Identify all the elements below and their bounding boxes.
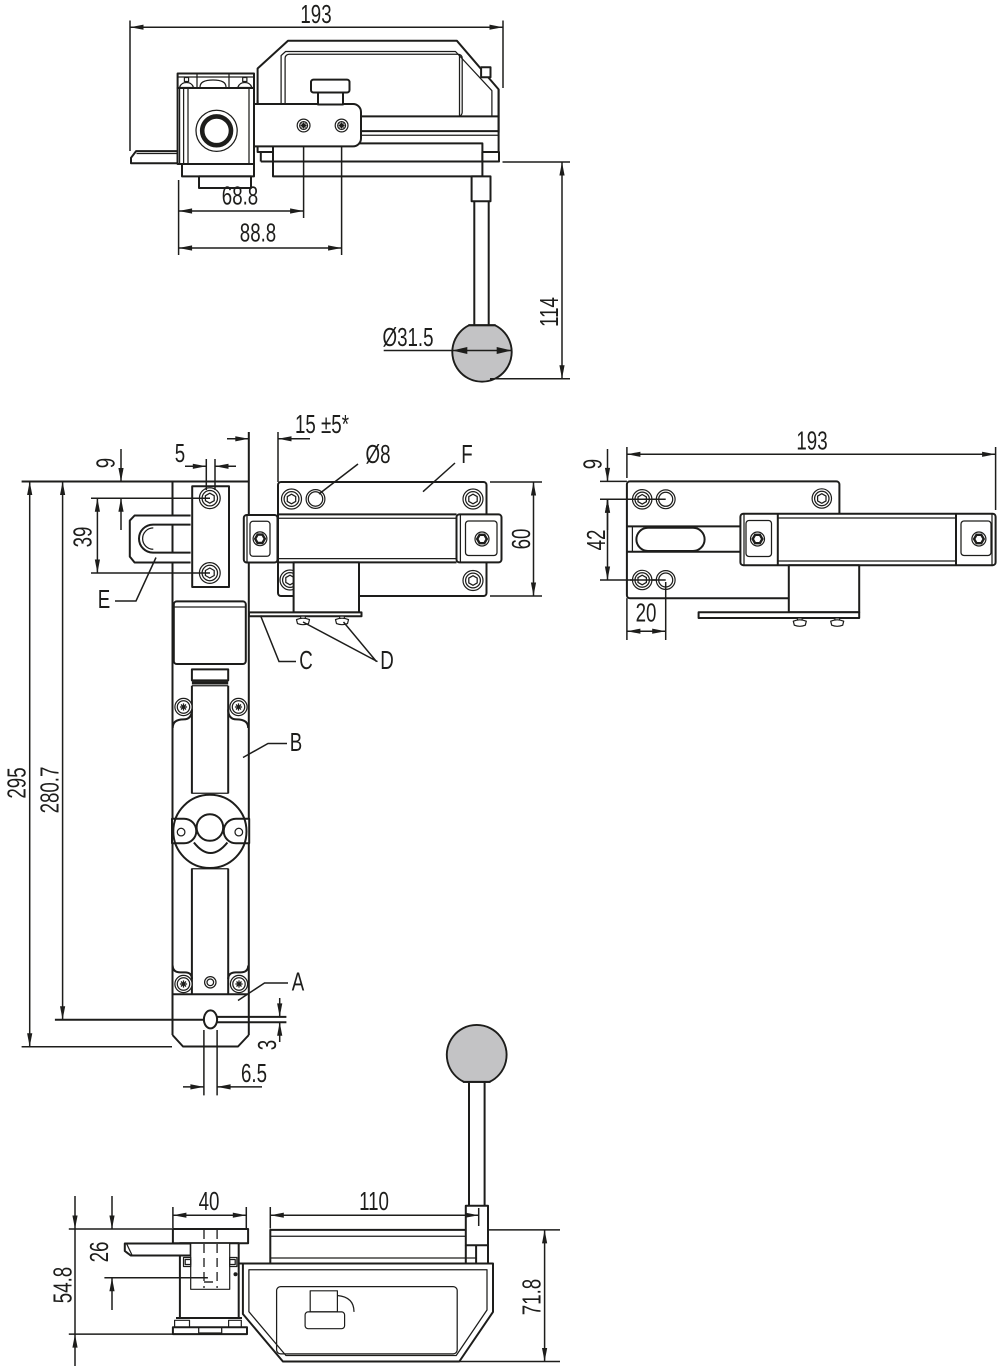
dim 6.5 (204, 1030, 217, 1095)
svg-text:39: 39 (67, 527, 97, 548)
block side screw left (184, 1258, 191, 1267)
dim 68.8 (179, 210, 304, 212)
left step piece (258, 100, 273, 161)
dim 3 (279, 998, 281, 1017)
svg-text:193: 193 (300, 0, 331, 29)
dim 9 (607, 449, 609, 481)
lever shaft hole bold ring (202, 116, 231, 145)
svg-text:Ø8: Ø8 (366, 439, 391, 469)
keeper E slot (139, 525, 191, 553)
shaft housing (191, 1243, 230, 1289)
svg-text:60: 60 (506, 529, 536, 550)
block screw right (243, 78, 247, 82)
screw center line bottom (600, 579, 666, 581)
flange plate (699, 612, 860, 618)
knob stem (318, 93, 343, 105)
arm screw 2 (335, 119, 348, 132)
mechanism box (285, 54, 462, 116)
svg-text:9: 9 (577, 459, 607, 469)
dim 193 right ext (995, 447, 997, 510)
bracket screw feet (798, 618, 803, 621)
cam disc (173, 795, 246, 868)
block top cap (173, 1229, 248, 1243)
svg-text:26: 26 (84, 1242, 114, 1263)
keeper E (130, 516, 191, 563)
dim 40 (173, 1214, 246, 1216)
F screw TL (282, 489, 302, 509)
hole TL2 (656, 490, 675, 509)
rail bottom edge (174, 993, 248, 995)
body left edge (172, 482, 174, 1036)
dim 15pm5 ext (248, 432, 250, 482)
body outer contour (258, 41, 499, 133)
band bottom line (361, 130, 499, 132)
dim 193 line (130, 26, 503, 28)
lever ball (447, 1025, 507, 1082)
block inner wall lines (179, 88, 181, 164)
dim 20 exts (626, 598, 628, 640)
lever shaft narrow (474, 201, 488, 325)
dim 54.8 (74, 1196, 76, 1366)
F screw TR (463, 489, 483, 509)
tube section (174, 601, 246, 664)
hole A lines right (217, 1017, 286, 1022)
dim 39 (91, 572, 210, 574)
band thin line (361, 134, 499, 136)
hidden shaft dashed (204, 1230, 217, 1288)
flat bar inner line (137, 153, 178, 155)
bracket (294, 562, 359, 612)
small pin dot (234, 1272, 238, 1276)
cam smile (194, 843, 228, 854)
plate C (249, 612, 362, 616)
svg-text:A: A (292, 966, 305, 996)
shaft top arc (200, 80, 226, 87)
rail screw TL (175, 698, 192, 715)
dim 114 line (561, 162, 563, 379)
bar inner lines (778, 518, 956, 561)
svg-text:6.5: 6.5 (241, 1058, 267, 1088)
slider cap (192, 669, 228, 680)
dim 54.8 refs (69, 1229, 176, 1334)
slot lines upper (192, 686, 228, 793)
slot stadium (636, 528, 704, 551)
lever shaft hole outer circle (196, 110, 237, 151)
svg-text:68.8: 68.8 (222, 180, 258, 210)
plate long line (261, 161, 483, 163)
rail screw TR (230, 698, 247, 715)
bar right block (955, 514, 957, 566)
svg-text:280.7: 280.7 (34, 767, 64, 814)
F plate left edge ext (277, 432, 279, 482)
dim 71.8 refs (460, 1230, 560, 1362)
dim 71.8 (544, 1230, 546, 1362)
knob side head (305, 1312, 345, 1329)
dim 295 (22, 1046, 172, 1048)
svg-text:88.8: 88.8 (240, 217, 276, 247)
svg-text:C: C (299, 645, 313, 675)
cam tab right (224, 819, 250, 844)
plate screw bottom (199, 563, 220, 584)
slot lines lower (192, 869, 228, 994)
main body outer (239, 1264, 493, 1362)
dim 15pm5 (227, 438, 310, 440)
bracket (789, 565, 859, 612)
dim 88.8 (179, 247, 342, 249)
dim 110 (270, 1214, 478, 1216)
ball knob (452, 325, 511, 382)
dim 193 line (627, 453, 996, 455)
slide bar right block (457, 514, 502, 562)
lever block body (178, 88, 254, 164)
body right edge (498, 89, 500, 152)
hole BL2 (656, 571, 675, 590)
knob head (311, 80, 350, 93)
cam tab hole left (177, 828, 185, 836)
svg-text:54.8: 54.8 (47, 1267, 77, 1303)
body edge through E slot (172, 525, 174, 553)
block body (180, 1243, 239, 1318)
arm (254, 104, 361, 146)
svg-text:40: 40 (199, 1186, 220, 1216)
svg-text:3: 3 (252, 1040, 282, 1050)
svg-text:Ø31.5: Ø31.5 (383, 322, 434, 352)
F screw BL (280, 570, 300, 590)
right bump tab (481, 67, 490, 77)
rail screw BR (230, 975, 247, 992)
block bottom band (182, 164, 254, 176)
F screw BR (463, 571, 483, 591)
dim 9 left (91, 497, 210, 499)
slide bar lines (278, 514, 457, 562)
main body inner (249, 1270, 487, 1356)
svg-text:114: 114 (534, 297, 564, 327)
plate screw top (199, 488, 220, 509)
flat bar left (131, 151, 178, 163)
knob side stem (310, 1291, 337, 1312)
plate top edge ext (600, 480, 627, 482)
bar left block (777, 514, 779, 566)
cavity (277, 1287, 458, 1354)
dim 110 exts (270, 1207, 478, 1229)
cam inner circle (197, 814, 224, 841)
block foot (199, 176, 251, 188)
plate F (278, 482, 487, 596)
svg-text:295: 295 (1, 767, 31, 798)
svg-text:E: E (98, 584, 110, 614)
block screw left (184, 78, 188, 82)
plate step right (482, 152, 499, 162)
body right edge (248, 432, 250, 612)
dim 42 (607, 499, 609, 580)
cam tab hole right (235, 828, 243, 836)
lower plate (273, 143, 482, 176)
block side screw right (230, 1258, 237, 1267)
dim 5 (206, 459, 215, 490)
svg-text:9: 9 (90, 458, 120, 468)
body bottom chamfers (173, 1035, 249, 1047)
rail top fillets (173, 710, 192, 729)
hole A lines left (55, 1019, 204, 1021)
body top edge + 295 ref line (22, 481, 249, 483)
dim 26 (111, 1196, 113, 1310)
screw TR (812, 489, 831, 508)
block top recess (197, 74, 229, 89)
rail bottom pockets (173, 966, 192, 980)
slot band lines (627, 526, 741, 551)
latch bar (740, 514, 995, 566)
lever shaft lower (466, 1206, 488, 1246)
dim 193 ext left (129, 21, 131, 152)
flat bar side (125, 1244, 191, 1256)
svg-text:D: D (380, 645, 394, 675)
block top band (178, 74, 254, 89)
lever shaft wide (472, 176, 491, 201)
mechanism box inner right line (459, 55, 461, 117)
bottom plate (173, 1327, 247, 1334)
svg-text:15 ±5*: 15 ±5* (295, 409, 349, 439)
screw ext lines (303, 146, 305, 218)
screw plate (192, 486, 229, 587)
slide bar left block (244, 515, 278, 563)
rail screw BL (175, 975, 192, 992)
slot crossbars (191, 792, 228, 794)
F hole dia8 (306, 490, 325, 509)
svg-text:71.8: 71.8 (516, 1279, 546, 1315)
dim 114 refs (503, 161, 571, 163)
band top line (361, 115, 499, 117)
screw BL1 (633, 570, 652, 589)
slot inner edge line (631, 526, 633, 551)
block feet (176, 1317, 242, 1319)
rail small hole (205, 977, 216, 988)
dim 193 ext right (502, 21, 504, 89)
svg-text:193: 193 (796, 425, 827, 455)
dim 40 exts (173, 1207, 246, 1228)
bracket screw feet (301, 616, 306, 619)
svg-text:B: B (290, 727, 302, 757)
svg-text:110: 110 (359, 1186, 389, 1216)
latch bar side (270, 1230, 476, 1264)
dim 26 ref (104, 1277, 207, 1279)
svg-text:20: 20 (636, 597, 657, 627)
dim 20 (627, 630, 666, 632)
dim 60 (490, 482, 542, 596)
hole A oval (204, 1010, 217, 1028)
back plate (627, 481, 840, 598)
arm screw 1 (297, 119, 310, 132)
screw center line top (600, 498, 666, 500)
knob wire (337, 1296, 354, 1312)
dim 280.7 (62, 482, 64, 1020)
dim dia31.5 leader (384, 350, 453, 352)
lever stem (469, 1082, 485, 1206)
body inner contour (281, 52, 492, 117)
svg-text:F: F (461, 439, 472, 469)
svg-text:42: 42 (581, 530, 611, 551)
cam tab left (172, 819, 196, 844)
svg-text:5: 5 (175, 438, 185, 468)
screw TL1 (633, 490, 652, 509)
